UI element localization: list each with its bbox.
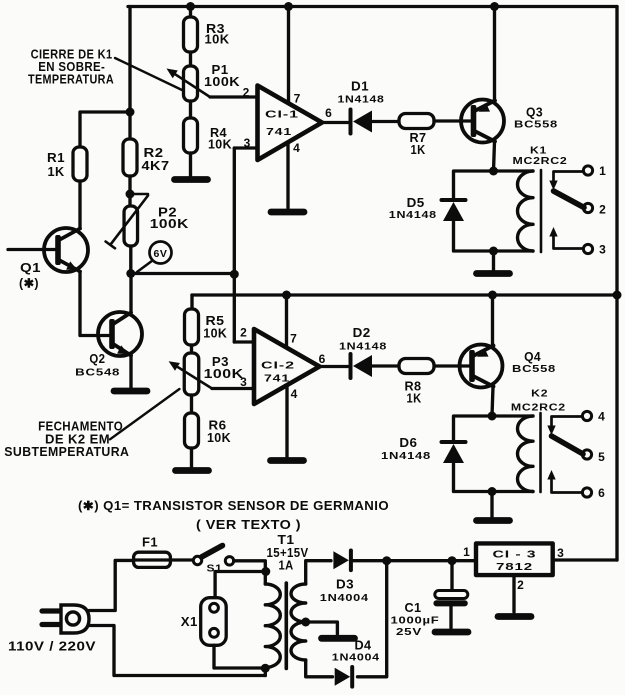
ground R4 (175, 176, 208, 183)
wire S1 to transformer primary (234, 561, 266, 584)
svg-text:7812: 7812 (496, 561, 533, 573)
wire K1 to ground (492, 251, 495, 270)
svg-text:100K: 100K (204, 367, 244, 381)
relay K1 coil box (454, 171, 534, 251)
wire K1 contact1 pole (554, 172, 584, 182)
svg-text:(✱) Q1= TRANSISTOR SENSOR DE G: (✱) Q1= TRANSISTOR SENSOR DE GERMANIO (78, 499, 389, 513)
node R1/R2 branch (126, 108, 135, 117)
svg-text:BC558: BC558 (514, 118, 558, 130)
diode D4 1N4004 (335, 668, 351, 686)
relay K2 contact 4 (582, 411, 591, 420)
svg-text:10K: 10K (205, 33, 230, 47)
wire Q2 collector to 6V node (129, 274, 132, 313)
svg-text:4: 4 (598, 410, 605, 424)
wire CI-1 output to D1 (322, 121, 348, 124)
svg-text:4: 4 (293, 141, 300, 155)
svg-text:CI-2: CI-2 (261, 360, 295, 372)
wire CI-2 pin2 stub (234, 340, 254, 343)
wire Q4 emitter from mid rail (491, 295, 494, 346)
node X1 top tie (261, 567, 270, 576)
svg-text:10K: 10K (208, 138, 232, 152)
wire plug to fuse (89, 560, 134, 610)
node mid rail / Q4 emitter (488, 291, 497, 300)
svg-text:7: 7 (290, 332, 297, 346)
relay K1 core (540, 170, 543, 252)
ground K1 (477, 270, 510, 277)
transistor Q3 BC558 (461, 100, 504, 143)
wire Q1 emitter to Q2 base (80, 272, 110, 336)
wire secondary bottom to D4 (306, 660, 333, 677)
svg-text:1K: 1K (411, 143, 426, 157)
resistor R7 (399, 114, 434, 129)
svg-text:D3: D3 (336, 578, 354, 592)
svg-text:1N4148: 1N4148 (381, 450, 431, 462)
wire CI-1 pin7 from top rail (287, 7, 290, 104)
relay K1 contact 3 (583, 244, 592, 253)
ground CI-3 pin2 (498, 613, 531, 620)
wire K2 contact6 indicator (552, 479, 583, 493)
voltage selector X1 (201, 598, 227, 646)
svg-text:100K: 100K (204, 75, 240, 89)
svg-text:1N4004: 1N4004 (320, 592, 369, 604)
svg-text:MC2RC2: MC2RC2 (511, 402, 566, 414)
svg-text:6V: 6V (153, 248, 167, 260)
resistor R8 (399, 359, 434, 374)
svg-text:2: 2 (240, 326, 247, 340)
wire CI-1 pin3 stub (234, 146, 257, 149)
wire K2 contact4 pole (552, 417, 583, 427)
wire R2 to P2 (128, 176, 131, 206)
svg-text:C1: C1 (405, 601, 422, 615)
diode D6 1N4148 (442, 440, 466, 444)
wire top +12V rail (128, 5, 617, 8)
label 6V circle (137, 261, 153, 273)
svg-text:10K: 10K (203, 327, 227, 341)
wire branch to R1 (80, 112, 130, 147)
node top rail / R3 (186, 2, 195, 11)
capacitor C1 1000uF (448, 556, 457, 565)
potentiometer P3 (184, 353, 199, 395)
svg-text:SUBTEMPERATURA: SUBTEMPERATURA (4, 445, 129, 459)
transformer T1 core (284, 583, 288, 669)
wire R7 to Q3 base (434, 119, 471, 122)
svg-text:5: 5 (598, 450, 605, 464)
trimpot P2 (124, 206, 138, 246)
wire D4 up to DC node (358, 561, 387, 677)
svg-text:4K7: 4K7 (142, 159, 170, 173)
wire D3 to CI-3 input (354, 559, 477, 562)
svg-text:D5: D5 (407, 196, 425, 210)
wire CI-1 pin4 to ground (286, 143, 289, 209)
svg-text:TEMPERATURA: TEMPERATURA (28, 73, 114, 87)
relay K2 contact 5 (582, 450, 591, 459)
wire R4 to ground (189, 153, 192, 176)
ground CI-2 pin4 (271, 457, 304, 464)
svg-text:3: 3 (240, 375, 247, 389)
svg-text:6: 6 (319, 352, 326, 366)
svg-text:3: 3 (557, 546, 564, 560)
switch S1 (170, 558, 193, 561)
svg-text:2: 2 (243, 86, 250, 100)
wire 6V vertical pin3 to CI-2 pin2 (233, 148, 236, 342)
svg-text:F1: F1 (142, 536, 158, 550)
ground K2 (477, 517, 510, 524)
wire R6 to ground (190, 448, 193, 467)
svg-text:741: 741 (266, 126, 292, 138)
resistor R6 (185, 413, 199, 448)
wire CI-2 pin4 to ground (285, 386, 288, 458)
wire CI-3 output to right rail (553, 558, 617, 561)
node K2 bottom (488, 487, 497, 496)
svg-text:1N4148: 1N4148 (389, 209, 437, 221)
node top rail / CI-1 pin7 (284, 2, 293, 11)
transformer T1 secondary (291, 584, 306, 660)
wire Q4 collector to relay K2 (492, 387, 493, 417)
svg-text:D6: D6 (399, 436, 417, 450)
wire D2 to R8 (369, 364, 400, 367)
transistor Q1 (germanium sensor) (8, 248, 58, 251)
svg-text:T1: T1 (278, 533, 295, 547)
op-amp CI-2 741 (254, 329, 320, 404)
svg-text:1K: 1K (48, 165, 65, 179)
svg-text:1: 1 (463, 545, 470, 559)
diode D3 1N4004 (333, 551, 349, 569)
wire P3 to R6 (190, 395, 193, 413)
node P2 wiper tie (126, 190, 135, 199)
wire right +12V rail (615, 7, 618, 561)
wire P1 to R4 (189, 101, 192, 118)
node mid rail / right rail (613, 291, 622, 300)
node D4/D3 junction (382, 556, 391, 565)
resistor R2 (123, 139, 137, 176)
svg-text:2: 2 (599, 203, 606, 217)
relay K1 contact 2 (583, 203, 592, 212)
svg-text:1A: 1A (279, 559, 294, 573)
svg-text:MC2RC2: MC2RC2 (513, 155, 568, 167)
svg-text:741: 741 (264, 373, 290, 385)
wire secondary top to D3 (306, 561, 331, 584)
node K1 bottom (489, 247, 498, 256)
wire R8 to Q4 base (435, 364, 470, 367)
svg-text:6: 6 (325, 106, 332, 120)
node primary bottom (261, 664, 270, 673)
svg-text:7: 7 (294, 92, 301, 106)
svg-text:6: 6 (598, 486, 605, 500)
svg-text:10K: 10K (207, 431, 231, 445)
svg-text:D1: D1 (351, 80, 369, 94)
wire center tap to ground (301, 618, 310, 627)
wire K1 contact3 indicator (554, 236, 584, 249)
relay K2 armature (552, 436, 584, 454)
resistor R1 (73, 147, 87, 181)
wire Q3 emitter from top rail (493, 7, 496, 102)
diode D1 1N4148 (349, 110, 353, 134)
ground center tap (322, 635, 355, 642)
wire P3 wiper to CI-2 pin3 (212, 387, 254, 390)
relay K1 contact 1 (583, 166, 592, 175)
node 6V line / CI inputs vertical (230, 270, 239, 279)
wire D1 to R7 (369, 120, 400, 123)
wire X1 bottom (214, 645, 265, 668)
svg-text:X1: X1 (181, 615, 198, 629)
wire mid +12V rail (192, 293, 617, 296)
wire X1 top (215, 572, 265, 598)
resistor R5 (190, 295, 193, 309)
wire R1 to Q1 collector (78, 181, 81, 228)
regulator CI-3 7812 (476, 543, 553, 575)
node K1 top (489, 167, 498, 176)
svg-text:CI - 3: CI - 3 (493, 549, 537, 561)
wire Q2 emitter to ground (129, 356, 132, 389)
node top rail / Q3 emitter (490, 2, 499, 11)
wire K2 to ground (490, 492, 493, 518)
svg-text:K2: K2 (531, 388, 548, 400)
wire Q3 collector to relay K1 (494, 142, 495, 172)
ground Q2 (114, 388, 147, 395)
ground CI-1 pin4 (271, 209, 304, 216)
svg-text:( VER TEXTO ): ( VER TEXTO ) (196, 518, 301, 532)
leader line to P3 (110, 389, 179, 439)
transistor Q4 BC558 (460, 345, 503, 388)
transformer T1 primary (265, 584, 280, 667)
wire CI-3 pin2 to ground (512, 575, 515, 612)
wire R5 to P3 (190, 345, 193, 353)
transistor Q2 BC548 (98, 312, 142, 356)
fuse F1 (134, 552, 171, 567)
relay K2 coil box (454, 416, 534, 492)
svg-text:3: 3 (599, 243, 606, 257)
svg-text:BC558: BC558 (512, 363, 556, 375)
wire CI-2 pin7 from mid rail (285, 295, 288, 347)
ground R6 (176, 467, 209, 474)
relay K1 armature (554, 191, 585, 208)
svg-text:Q2: Q2 (89, 352, 105, 366)
node 6V line left / Q2 collector (126, 269, 135, 278)
svg-text:3: 3 (244, 136, 251, 150)
diode D2 1N4148 (349, 354, 353, 378)
svg-text:1N4004: 1N4004 (332, 652, 380, 664)
wire R3 to P1 (189, 52, 192, 66)
svg-text:BC548: BC548 (75, 367, 120, 379)
leader line to P1 (115, 58, 182, 90)
svg-text:Q1: Q1 (20, 261, 41, 275)
svg-text:R2: R2 (144, 146, 164, 160)
svg-text:(✱): (✱) (19, 277, 39, 291)
wire P1 wiper to CI-1 pin2 (210, 95, 258, 98)
op-amp CI-1 741 (258, 86, 323, 161)
wire CI-2 output to D2 (320, 365, 349, 368)
svg-text:4: 4 (291, 387, 298, 401)
wire left vertical from top rail to R2 (128, 7, 131, 140)
diode D5 1N4148 (442, 198, 466, 202)
svg-text:25V: 25V (396, 626, 422, 638)
mains plug (42, 608, 62, 613)
svg-text:R1: R1 (47, 151, 65, 165)
svg-text:110V / 220V: 110V / 220V (8, 640, 96, 654)
relay K2 contact 6 (582, 488, 591, 497)
svg-text:1000µF: 1000µF (391, 615, 440, 627)
svg-text:100K: 100K (150, 217, 189, 231)
svg-text:D4: D4 (355, 639, 372, 653)
relay K2 core (539, 413, 542, 492)
svg-text:2: 2 (517, 578, 524, 592)
potentiometer P1 (184, 66, 198, 101)
wire plug to bottom line (89, 626, 265, 676)
resistor R4 (184, 118, 198, 153)
svg-text:1: 1 (599, 164, 606, 178)
svg-text:D2: D2 (353, 326, 371, 340)
node K2 top (488, 412, 497, 421)
svg-text:Q4: Q4 (524, 350, 541, 364)
svg-text:1K: 1K (407, 392, 422, 406)
svg-text:1N4148: 1N4148 (339, 341, 387, 353)
ground C1 (435, 629, 468, 636)
svg-text:1N4148: 1N4148 (338, 94, 385, 106)
wire 6V reference line (131, 272, 235, 275)
relay K1 coil (517, 171, 533, 251)
resistor R3 (189, 7, 192, 18)
node mid rail / CI-2 pin7 (282, 291, 291, 300)
svg-text:CI-1: CI-1 (265, 109, 299, 121)
wire P2 to 6V node (129, 246, 132, 274)
relay K2 coil (517, 416, 533, 492)
